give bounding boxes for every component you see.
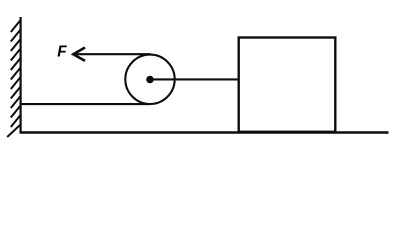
- svg-text:F: F: [57, 43, 67, 60]
